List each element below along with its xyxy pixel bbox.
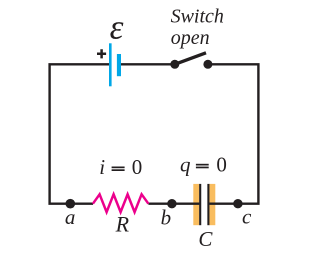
capacitor C left plate orange highlight [193, 184, 199, 225]
switch right contact dot [203, 60, 212, 69]
svg-text:i: i [99, 155, 105, 179]
svg-text:q: q [180, 152, 191, 176]
svg-text:0: 0 [216, 152, 227, 176]
svg-text:a: a [65, 205, 76, 229]
capacitor C right plate [207, 184, 209, 225]
svg-text:0: 0 [132, 155, 143, 179]
svg-text:Switch: Switch [171, 6, 224, 28]
wire: battery positive plate to switch left contact [121, 63, 175, 65]
svg-text:b: b [161, 206, 172, 230]
wire: resistor right end through node b to capacitor left plate [148, 202, 199, 204]
svg-text:C: C [198, 227, 213, 251]
svg-text:R: R [115, 211, 130, 236]
svg-text:c: c [242, 204, 252, 228]
battery polarity + sign [97, 49, 106, 58]
capacitor C right plate orange highlight [209, 184, 215, 225]
wire: switch right contact to top-right corner, right side, down to capacitor right plate [208, 64, 259, 203]
capacitor C left plate [199, 184, 201, 225]
switch left contact dot [170, 60, 179, 69]
battery EMF source: long negative plate [109, 43, 112, 86]
svg-text:ε: ε [110, 7, 124, 46]
node b junction dot [167, 199, 176, 208]
battery EMF source: short positive plate [117, 54, 121, 76]
switch lever (open) [175, 53, 206, 65]
wire: battery negative plate to top-left corner, left side, down to resistor [50, 64, 110, 203]
resistor R zigzag [93, 194, 148, 212]
svg-text:open: open [171, 27, 210, 49]
node a junction dot [66, 199, 76, 209]
node c junction dot [233, 199, 242, 208]
